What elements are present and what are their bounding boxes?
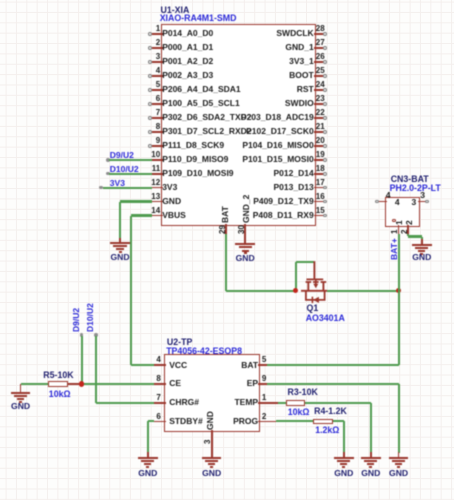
U1 pin 28 SWDCLK (0, 0, 1, 1)
CN3 value PH2.0-2P-LT (390, 184, 441, 193)
net label D9/U2 text (72, 308, 81, 332)
U1 pin 20 P104_D16_MISO0 (0, 0, 1, 1)
U2 designator U2-TP (167, 338, 192, 347)
U1 pin 9 P111_D8_SCK9 (0, 0, 1, 1)
U2 pin 3 GND (211, 430, 213, 453)
net label D10/U2 (vertical, to CHRG#) (0, 0, 1, 1)
CN3 pin 1 number (391, 229, 399, 233)
U1 pin 11 P109_D10_MOSI9 (0, 0, 1, 1)
wire STDBY# down to ground (147, 421, 149, 452)
U1 pin 5 P206_A4_D4_SDA1 (0, 0, 1, 1)
wire Q1 gate loop horizontal (296, 261, 315, 263)
U1 pin 16 P409_D12_TX9 (0, 0, 1, 1)
net label D10/U2 text (86, 303, 95, 332)
wire R4 right (333, 420, 344, 422)
U1 pin 25 BOOT (0, 0, 1, 1)
U1 pin 4 P002_A3_D3 (0, 0, 1, 1)
U1 pin 29 BAT (0, 0, 1, 1)
U1 pin 17 P013_D13 (0, 0, 1, 1)
wire U2 PROG to R4 (267, 421, 276, 423)
wire D10/U2 down (95, 336, 97, 403)
ground STDBY# (0, 0, 1, 1)
U1 pin 21 P102_D17_SCK0 (0, 0, 1, 1)
net label D10/U2 (U1 pin 11) (0, 0, 1, 1)
U1 pin 12 3V3 (0, 0, 1, 1)
wire R3 down to ground (370, 403, 372, 453)
wire CN3 pin 2 to ground (421, 237, 423, 240)
U1 pin 29 name BAT (221, 206, 230, 223)
junction node at Q1 gate/source (293, 288, 298, 293)
U1 pin 30 number (238, 225, 246, 234)
CN3 pin 1 name (395, 220, 404, 225)
CN3 pin 2 number (401, 229, 409, 233)
U1 pin 14 VBUS (0, 0, 1, 1)
U1 pin 3 P001_A2_D2 (0, 0, 1, 1)
ground CN3 pin 2 (0, 0, 1, 1)
U2 pin 2 PROG (0, 0, 1, 1)
wire D10/U2 to U1 pin 11 (109, 173, 152, 175)
net label BAT+ (390, 238, 399, 260)
wire VBUS to U2 VCC (131, 364, 154, 366)
U2 pin 4 VCC (0, 0, 1, 1)
net label D9/U2 (U1 pin 10) (0, 0, 1, 1)
U1 pin 30 name GND_2 (242, 195, 251, 223)
R3 value 10k (288, 408, 310, 417)
wire Q1 drain to BAT+ node (327, 290, 399, 292)
U1 pin 10 P110_D9_MISO9 (0, 0, 1, 1)
U1 pin 24 RST (0, 0, 1, 1)
U1 pin 30 GND_2 (0, 0, 1, 1)
wire CN3 pin 2 right (408, 235, 422, 237)
wire VBUS vertical (130, 216, 132, 366)
U2 pin 1 TEMP (0, 0, 1, 1)
U2 pin 9 EP (0, 0, 1, 1)
R3 designator R3-10K (288, 388, 318, 397)
U1 value XIAO-RA4M1-SMD (160, 14, 237, 23)
U1 pin 18 P012_D14 (0, 0, 1, 1)
U1 pin 13 GND (0, 0, 1, 1)
U2 pin 8 CE (0, 0, 1, 1)
CN3 designator CN3-BAT (391, 175, 429, 184)
wire BAT up to BAT+ node (398, 291, 400, 366)
wire U1 pin 29 BAT down (225, 234, 227, 291)
net label D9/U2 (vertical, to CE) (0, 0, 1, 1)
CN3 pin 3 (0, 0, 1, 1)
wire 3V3 to U1 pin 12 (103, 187, 152, 189)
net label 3V3 (U1 pin 12) (0, 0, 1, 1)
U2 pin 3 number (204, 439, 212, 443)
U1 pin 7 P302_D6_SDA2_TXD2 (0, 0, 1, 1)
U1 pin 22 P203_D18_ADC19 (0, 0, 1, 1)
R5 value 10k (49, 390, 71, 399)
wire VBUS from U1 pin 14 (131, 214, 152, 216)
U1 pin 27 GND_1 (0, 0, 1, 1)
R5 designator R5-10K (43, 371, 73, 380)
U2 pin 5 BAT (0, 0, 1, 1)
junction node BAT+ (396, 288, 401, 293)
IC U1 XIAO-RA4M1-SMD body (161, 24, 317, 226)
IC U2 TP4056-42-ESOP8 body (164, 354, 260, 432)
ground U1 pin 13 (0, 0, 1, 1)
wire U1 pin 13 GND vertical (119, 202, 121, 238)
ground R4 (0, 0, 1, 1)
ground U1 pin 30 (0, 0, 1, 1)
ground U2 pin 3 (0, 0, 1, 1)
wire U2 STDBY# left (148, 420, 154, 422)
wire ground to R5 (21, 383, 48, 385)
wire R5 to U2 CE (82, 383, 154, 385)
transistor Q1 AO3401A (0, 0, 1, 1)
wire EP down to ground (398, 384, 400, 453)
R4 designator R4-1.2K (314, 407, 347, 416)
Q1 designator (307, 304, 319, 313)
resistor R3 (286, 400, 306, 406)
wire D10/U2 to U2 CHRG# (96, 402, 154, 404)
U1 pin 1 P014_A0_D0 (0, 0, 1, 1)
U1 pin 6 P100_A5_D5_SCL1 (0, 0, 1, 1)
U1 pin 19 P101_D15_MOSI0 (0, 0, 1, 1)
U1 pin 8 P301_D7_SCL2_RXD2 (0, 0, 1, 1)
wire U2 TEMP to R3 (267, 402, 278, 404)
U1 pin 15 P408_D11_RX9 (0, 0, 1, 1)
resistor R5 (0, 0, 1, 1)
wire U2 EP right (267, 383, 399, 385)
U1 designator U1-XIA (161, 6, 190, 15)
CN3 pin 2 name (405, 220, 414, 225)
resistor R4 (313, 419, 333, 425)
wire Q1 gate loop vertical (295, 262, 297, 291)
junction node CE/R5/D9 (79, 381, 84, 386)
ground EP (0, 0, 1, 1)
U2 pin 3 name GND (206, 411, 215, 430)
ground R3 (0, 0, 1, 1)
CN3 pin 2 (0, 0, 1, 1)
wire CN3 pin 2 down (407, 234, 409, 237)
wire BAT+ from CN3 pin 1 (398, 234, 400, 291)
wire BAT to Q1 source (226, 290, 296, 292)
U2 pin 6 STDBY# (0, 0, 1, 1)
ground R5 left (0, 0, 1, 1)
wire R3 right (305, 402, 371, 404)
U1 pin 29 number (219, 225, 227, 234)
wire U1 pin 13 GND horizontal (120, 200, 152, 202)
wire D9/U2 to U1 pin 10 (109, 159, 152, 161)
R4 value 1.2k (315, 426, 339, 435)
U2 pin 7 CHRG# (0, 0, 1, 1)
wire D9/U2 down to CE (81, 336, 83, 384)
U2 value TP4056-42-ESOP8 (166, 347, 242, 356)
connector CN3 body PH2.0-2P-LT (385, 197, 420, 227)
CN3 pin 1 (0, 0, 1, 1)
U1 pin 2 P000_A1_D1 (0, 0, 1, 1)
U1 pin 23 SWDIO (0, 0, 1, 1)
wire R4 down to ground (343, 421, 345, 452)
CN3 pin 4 (0, 0, 1, 1)
U1 pin 26 3V3_1 (0, 0, 1, 1)
Q1 value AO3401A (306, 314, 345, 323)
wire U2 BAT right (267, 364, 399, 366)
